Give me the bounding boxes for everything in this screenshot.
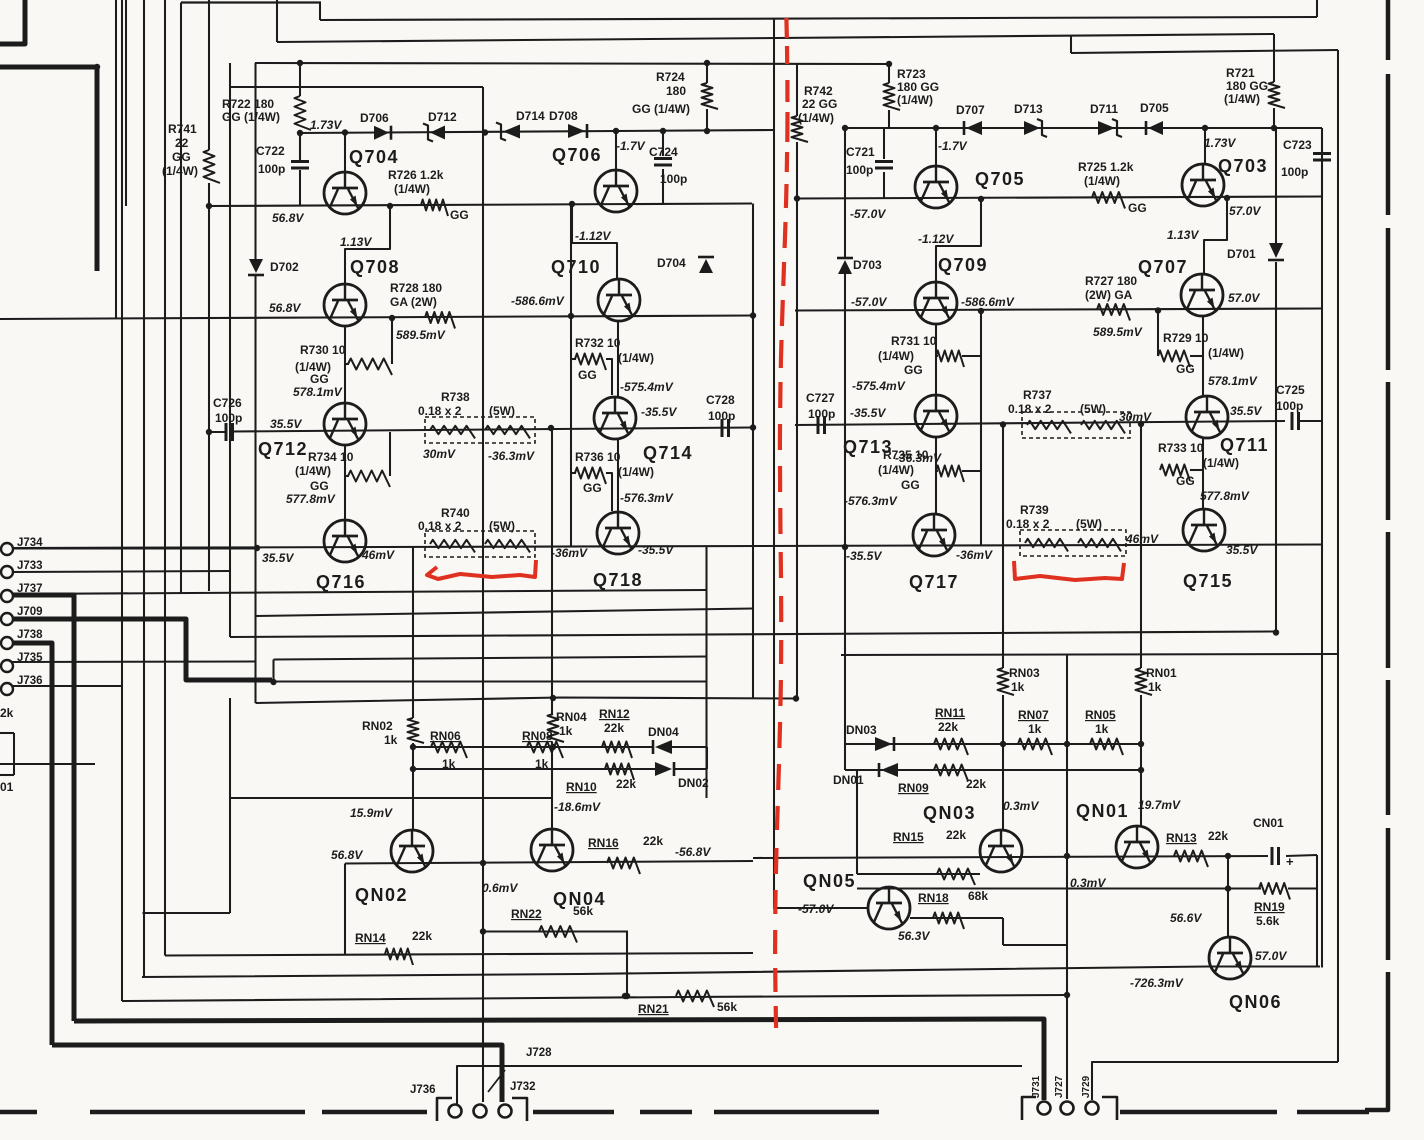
wire QN02 left corner: [344, 864, 346, 955]
svg-text:J738: J738: [17, 629, 43, 641]
wire CN01 tail: [1286, 855, 1317, 856]
svg-text:D711: D711: [1090, 102, 1118, 116]
node J734 pad: [1, 543, 13, 555]
svg-text:GG: GG: [904, 363, 923, 377]
wire vert x181: [180, 3, 182, 595]
wire bus y637-632: [230, 632, 1276, 638]
wire thick top-left horiz: [0, 65, 97, 70]
svg-text:15.9mV: 15.9mV: [350, 806, 393, 820]
resistor R727: [1097, 304, 1130, 321]
wire stack Q708-Q712: [344, 326, 346, 403]
wire left box right: [13, 733, 15, 775]
svg-text:RN12: RN12: [599, 707, 630, 721]
wire thick J709 run: [12, 619, 272, 680]
svg-text:56.8V: 56.8V: [272, 211, 304, 225]
connector J736/J732 block: [437, 1098, 452, 1121]
svg-text:Q711: Q711: [1220, 435, 1269, 455]
transistor Q708: [324, 284, 366, 326]
wire Q705 top feed: [935, 128, 937, 166]
node J736 pad: [1, 683, 13, 695]
wire RN14 line y954: [165, 953, 753, 956]
wire emitter bus left y205: [209, 204, 752, 207]
wire vert x1322: [1321, 128, 1323, 968]
node J738 pad: [1, 637, 13, 649]
resistor R739 (0.18x2): [1020, 530, 1126, 556]
resistor RN18: [933, 913, 964, 930]
svg-text:CN01: CN01: [1253, 816, 1284, 830]
wire riser RN01 col x1141: [1140, 425, 1142, 668]
svg-text:589.5mV: 589.5mV: [1093, 325, 1143, 339]
svg-text:-56.8V: -56.8V: [675, 845, 711, 859]
wire riser x277: [276, 0, 278, 42]
capacitor CN01: [1271, 847, 1274, 865]
resistor RN14: [385, 949, 413, 966]
transistor QN02: [391, 830, 433, 872]
wire thick J737 run: [12, 595, 74, 1021]
svg-text:57.0V: 57.0V: [1228, 291, 1260, 305]
capacitor C724: [654, 157, 672, 160]
svg-text:(5W): (5W): [489, 519, 515, 533]
svg-text:22: 22: [175, 136, 189, 150]
svg-text:1.13V: 1.13V: [340, 235, 372, 249]
svg-text:GG: GG: [1176, 474, 1195, 488]
svg-text:J735: J735: [17, 652, 43, 664]
wire R729 left riser: [1157, 310, 1159, 356]
svg-text:RN16: RN16: [588, 836, 619, 850]
wire R736 right jog: [606, 473, 612, 511]
svg-text:J731: J731: [1031, 1075, 1042, 1098]
capacitor C722: [291, 160, 309, 163]
wire QN06 top feed x1228: [1227, 856, 1229, 937]
wire bus y703-698: [256, 698, 798, 704]
svg-text:100p: 100p: [1276, 399, 1303, 413]
wire R723 column: [888, 64, 890, 83]
svg-text:0.18 x 2: 0.18 x 2: [1008, 402, 1052, 416]
wire C725 stub: [1299, 420, 1322, 422]
wire boundary x774: [773, 19, 775, 908]
svg-text:+: +: [1286, 854, 1294, 869]
wire vert x116: [115, 0, 117, 318]
svg-text:Q708: Q708: [350, 257, 400, 277]
svg-text:180: 180: [666, 84, 686, 98]
svg-text:C725: C725: [1276, 383, 1305, 397]
svg-text:R741: R741: [168, 122, 197, 136]
resistor RN09: [934, 765, 968, 782]
svg-text:0.18 x 2: 0.18 x 2: [1006, 517, 1050, 531]
diode D705: [1148, 121, 1163, 135]
resistor RN13: [1174, 851, 1208, 868]
svg-text:QN05: QN05: [803, 871, 856, 891]
svg-text:2k: 2k: [0, 706, 14, 720]
wire stack Q707-Q711: [1202, 316, 1204, 396]
wire thick bottom rail1: [74, 1019, 1044, 1100]
svg-text:QN06: QN06: [1229, 992, 1282, 1012]
wire stack Q710-Q714: [617, 321, 619, 397]
node J709 pad: [1, 613, 13, 625]
resistor R736: [575, 468, 606, 485]
svg-text:-1.12V: -1.12V: [918, 232, 954, 246]
svg-text:RN22: RN22: [511, 907, 542, 921]
bottom dashed border: [0, 1110, 37, 1115]
svg-text:-35.5V: -35.5V: [846, 549, 882, 563]
svg-text:1.13V: 1.13V: [1167, 228, 1199, 242]
svg-text:68k: 68k: [968, 889, 988, 903]
wire C726 stub: [209, 431, 226, 433]
wire QN emitter right y858: [753, 856, 1268, 858]
svg-text:100p: 100p: [846, 163, 873, 177]
wire top bus y53: [1071, 50, 1338, 53]
transistor Q716: [324, 520, 366, 562]
wire RN19 line y888: [857, 887, 1261, 889]
svg-text:R732 10: R732 10: [575, 336, 621, 350]
svg-text:Q717: Q717: [909, 572, 959, 592]
wire vert x1276 D701 col: [1275, 128, 1277, 243]
svg-text:(1/4W): (1/4W): [394, 182, 430, 196]
wire left stub y764: [0, 763, 95, 765]
svg-text:R723: R723: [897, 67, 926, 81]
wire top bus y2: [181, 1, 321, 3]
svg-text:22k: 22k: [643, 834, 663, 848]
svg-text:R740: R740: [441, 506, 470, 520]
svg-text:J737: J737: [17, 583, 43, 595]
wire jog Q708 base: [345, 206, 390, 284]
svg-text:RN19: RN19: [1254, 900, 1285, 914]
svg-text:QN02: QN02: [355, 885, 408, 905]
svg-text:(1/4W): (1/4W): [1203, 456, 1239, 470]
svg-text:-36mV: -36mV: [551, 546, 588, 560]
svg-text:R722 180: R722 180: [222, 97, 274, 111]
svg-text:C721: C721: [846, 145, 875, 159]
svg-text:22k: 22k: [1208, 829, 1228, 843]
wire R734 left stub: [345, 475, 349, 477]
svg-text:Q714: Q714: [643, 443, 693, 463]
svg-text:35.5V: 35.5V: [1230, 404, 1262, 418]
wire vert x300 R722 column: [299, 63, 301, 96]
svg-text:J734: J734: [17, 537, 43, 549]
resistor RN07: [1018, 739, 1052, 756]
svg-text:R730 10: R730 10: [300, 343, 346, 357]
transistor QN03: [980, 830, 1022, 872]
wire row3 bus left y430: [233, 428, 753, 432]
resistor RN22: [539, 926, 577, 943]
svg-text:D707: D707: [956, 103, 985, 117]
wire thick bottom rail2: [52, 1045, 502, 1102]
transistor QN06: [1209, 937, 1251, 979]
svg-text:(5W): (5W): [489, 404, 515, 418]
wire emitter bus right y198: [797, 197, 1322, 199]
svg-text:46mV: 46mV: [1125, 532, 1159, 546]
svg-text:GG: GG: [1128, 201, 1147, 215]
wire top bus y20: [320, 17, 1317, 20]
wire QN05 left y908: [773, 907, 868, 909]
svg-text:C728: C728: [706, 393, 735, 407]
svg-text:-575.4mV: -575.4mV: [852, 379, 906, 393]
wire R733 right stub: [1190, 469, 1203, 471]
capacitor C725: [1291, 412, 1294, 430]
svg-text:D713: D713: [1014, 102, 1043, 116]
wire bias row left y132: [300, 130, 774, 133]
svg-text:Q705: Q705: [975, 169, 1025, 189]
svg-text:J732: J732: [510, 1081, 536, 1093]
svg-text:DN01: DN01: [833, 773, 864, 787]
capacitor C726: [225, 423, 228, 441]
svg-text:(1/4W): (1/4W): [162, 164, 198, 178]
svg-text:-35.5V: -35.5V: [850, 406, 886, 420]
svg-text:Q710: Q710: [551, 257, 601, 277]
svg-text:D714: D714: [516, 109, 545, 123]
svg-text:(1/4W): (1/4W): [618, 465, 654, 479]
resistor R731: [936, 351, 964, 368]
svg-text:DN02: DN02: [678, 776, 709, 790]
wire riser x857: [856, 770, 858, 874]
svg-text:C723: C723: [1283, 138, 1312, 152]
svg-text:46mV: 46mV: [361, 548, 395, 562]
wire vert x144: [143, 0, 145, 977]
svg-text:Q709: Q709: [938, 255, 988, 275]
transistor Q714: [594, 397, 636, 439]
svg-text:J709: J709: [17, 606, 43, 618]
svg-text:1.73V: 1.73V: [310, 118, 342, 132]
wire RN row1 left y747: [413, 746, 652, 748]
svg-text:-726.3mV: -726.3mV: [1130, 976, 1184, 990]
diode D713: [1024, 121, 1040, 135]
svg-text:R737: R737: [1023, 388, 1052, 402]
svg-text:Q707: Q707: [1138, 257, 1188, 277]
svg-text:R742: R742: [804, 84, 833, 98]
svg-text:RN05: RN05: [1085, 708, 1116, 722]
svg-text:GG: GG: [172, 150, 191, 164]
wire DN04 corner: [706, 747, 708, 769]
diode DN03: [875, 737, 892, 751]
wire J733 line y572: [12, 571, 230, 572]
wire R732 left stub: [571, 358, 576, 360]
resistor RN11: [934, 739, 968, 756]
wire Q703 top feed: [1204, 128, 1206, 164]
svg-text:1k: 1k: [1148, 680, 1162, 694]
wire vert x126: [125, 0, 127, 206]
resistor R734: [348, 471, 390, 488]
diode D707: [966, 121, 982, 135]
wire DN row right y744: [845, 743, 1141, 745]
wire jog Q707 base: [1204, 198, 1227, 274]
svg-text:(1/4W): (1/4W): [295, 464, 331, 478]
svg-text:R728 180: R728 180: [390, 281, 442, 295]
resistor R732: [575, 354, 606, 371]
svg-text:577.8mV: 577.8mV: [286, 492, 336, 506]
svg-text:C727: C727: [806, 391, 835, 405]
resistor R723: [884, 83, 901, 110]
svg-text:Q716: Q716: [316, 572, 366, 592]
wire Q706 top feed: [615, 131, 617, 170]
transistor Q706: [595, 170, 637, 212]
svg-text:100p: 100p: [1281, 165, 1308, 179]
svg-text:D703: D703: [853, 258, 882, 272]
svg-text:100p: 100p: [660, 172, 687, 186]
svg-text:56.6V: 56.6V: [1170, 911, 1202, 925]
wire RN15 line y874: [857, 873, 980, 875]
diode D703: [838, 260, 852, 274]
svg-text:RN15: RN15: [893, 830, 924, 844]
wire R730 left stub: [345, 363, 349, 365]
svg-text:R726 1.2k: R726 1.2k: [388, 168, 444, 182]
svg-text:0.18 x 2: 0.18 x 2: [418, 519, 462, 533]
svg-text:0.3mV: 0.3mV: [1070, 876, 1106, 890]
svg-text:(1/4W): (1/4W): [878, 463, 914, 477]
svg-text:-35.5V: -35.5V: [638, 543, 674, 557]
svg-text:D701: D701: [1227, 247, 1256, 261]
transistor Q717: [913, 514, 955, 556]
capacitor C728: [721, 419, 724, 437]
svg-text:GG: GG: [1176, 362, 1195, 376]
svg-text:56k: 56k: [717, 1000, 737, 1014]
svg-text:(1/4W): (1/4W): [897, 93, 933, 107]
wire vert x165: [164, 0, 166, 956]
svg-text:100p: 100p: [708, 409, 735, 423]
wire branch x1071: [1070, 36, 1072, 53]
svg-text:R734 10: R734 10: [308, 450, 354, 464]
svg-text:22 GG: 22 GG: [802, 97, 837, 111]
resistor R742: [792, 116, 809, 142]
svg-text:C722: C722: [256, 144, 285, 158]
wire QN emitter left y863: [345, 861, 753, 864]
wire R732 right jog: [606, 359, 612, 395]
wire R721 column: [1273, 34, 1275, 82]
svg-text:22k: 22k: [604, 721, 624, 735]
svg-text:DN03: DN03: [846, 723, 877, 737]
wire vert x230: [229, 63, 231, 637]
svg-text:35.5V: 35.5V: [262, 551, 294, 565]
wire left box top: [0, 732, 14, 734]
wire CN01 right corner: [1316, 855, 1318, 966]
svg-text:RN08: RN08: [522, 729, 553, 743]
diode D714: [503, 125, 520, 139]
transistor QN05: [868, 887, 910, 929]
wire stub x230 low: [229, 698, 231, 913]
wire vert x255 D702 column: [254, 63, 256, 259]
wire thick top-left vert: [95, 65, 100, 272]
svg-text:J729: J729: [1081, 1075, 1092, 1098]
svg-text:22k: 22k: [616, 777, 636, 791]
diode DN02: [655, 762, 672, 776]
resistor R735: [936, 466, 964, 483]
diode D702: [249, 259, 263, 273]
red mark left: [427, 560, 536, 579]
wire R731 right riser: [980, 311, 982, 546]
svg-text:RN13: RN13: [1166, 831, 1197, 845]
svg-text:RN04: RN04: [556, 710, 587, 724]
resistor R730: [348, 359, 392, 376]
svg-text:J733: J733: [17, 560, 43, 572]
wire DN row right y770: [845, 769, 1141, 771]
wire row2 bus right y310: [795, 309, 1322, 311]
svg-text:(1/4W): (1/4W): [1224, 92, 1260, 106]
svg-text:0.3mV: 0.3mV: [1003, 799, 1039, 813]
diode D701: [1269, 243, 1283, 258]
svg-text:22k: 22k: [966, 777, 986, 791]
diode D712: [430, 126, 445, 140]
transistor Q710: [598, 279, 640, 321]
svg-text:D712: D712: [428, 110, 457, 124]
svg-text:Q712: Q712: [258, 439, 308, 459]
wire J736 route: [457, 1066, 1022, 1104]
resistor R728: [425, 312, 455, 329]
svg-text:-1.7V: -1.7V: [616, 139, 646, 153]
svg-text:DN04: DN04: [648, 725, 679, 739]
svg-text:R731 10: R731 10: [891, 334, 937, 348]
resistor R737 (0.18x2): [1022, 412, 1130, 438]
svg-text:(1/4W): (1/4W): [1084, 174, 1120, 188]
wire vert x706: [705, 547, 707, 799]
connector J731/J727/J729 block: [1022, 1097, 1036, 1120]
wire bus y913: [143, 912, 231, 914]
svg-text:D704: D704: [657, 256, 686, 270]
svg-text:-576.3mV: -576.3mV: [844, 494, 898, 508]
svg-text:1k: 1k: [442, 757, 456, 771]
svg-text:J736: J736: [17, 675, 43, 687]
svg-text:RN07: RN07: [1018, 708, 1049, 722]
wire vert x1338: [1337, 50, 1339, 1062]
diode D704: [699, 259, 713, 273]
svg-text:D702: D702: [270, 260, 299, 274]
resistor R738 (0.18x2): [425, 417, 535, 443]
svg-text:R725 1.2k: R725 1.2k: [1078, 160, 1134, 174]
transistor Q713: [915, 395, 957, 437]
resistor RN16: [607, 858, 640, 875]
wire RN18 line y918: [910, 917, 1003, 919]
svg-text:30mV: 30mV: [1119, 410, 1152, 424]
svg-text:R721: R721: [1226, 66, 1255, 80]
svg-text:01: 01: [0, 780, 14, 794]
svg-text:57.0V: 57.0V: [1229, 204, 1261, 218]
svg-text:1k: 1k: [1028, 722, 1042, 736]
svg-text:Q718: Q718: [593, 570, 643, 590]
wire vert x844: [844, 128, 846, 258]
svg-text:C726: C726: [213, 396, 242, 410]
svg-text:56.3V: 56.3V: [898, 929, 930, 943]
wire R731 stubs: [936, 355, 938, 357]
transistor Q711: [1186, 396, 1228, 438]
transistor Q703: [1182, 164, 1224, 206]
wire top bus y63: [255, 63, 889, 64]
wire stack Q714-Q718: [617, 439, 619, 512]
wire vert x483 long: [482, 87, 484, 1102]
wire RN22 line y931: [483, 930, 628, 932]
resistor RN06: [431, 742, 467, 759]
wire riser x1317: [1316, 0, 1318, 17]
resistor RN21: [676, 991, 714, 1008]
svg-text:D705: D705: [1140, 101, 1169, 115]
J728 pointer line: [488, 1070, 505, 1092]
svg-text:R738: R738: [441, 390, 470, 404]
wire R724 column: [706, 63, 708, 83]
svg-text:R736 10: R736 10: [575, 450, 621, 464]
resistor RN04: [548, 714, 565, 742]
resistor RN02: [408, 718, 425, 743]
svg-text:GG: GG: [583, 481, 602, 495]
resistor R741: [204, 150, 221, 183]
diode DN01: [881, 763, 898, 777]
svg-text:QN03: QN03: [923, 803, 976, 823]
svg-text:56k: 56k: [573, 904, 593, 918]
svg-text:QN01: QN01: [1076, 801, 1129, 821]
svg-text:22k: 22k: [938, 720, 958, 734]
svg-text:J736: J736: [410, 1084, 436, 1096]
wire row2 bus left y317: [0, 316, 753, 320]
svg-text:R733 10: R733 10: [1158, 441, 1204, 455]
svg-text:-57.0V: -57.0V: [798, 902, 834, 916]
diode DN04: [655, 740, 672, 754]
transistor Q709: [915, 282, 957, 324]
